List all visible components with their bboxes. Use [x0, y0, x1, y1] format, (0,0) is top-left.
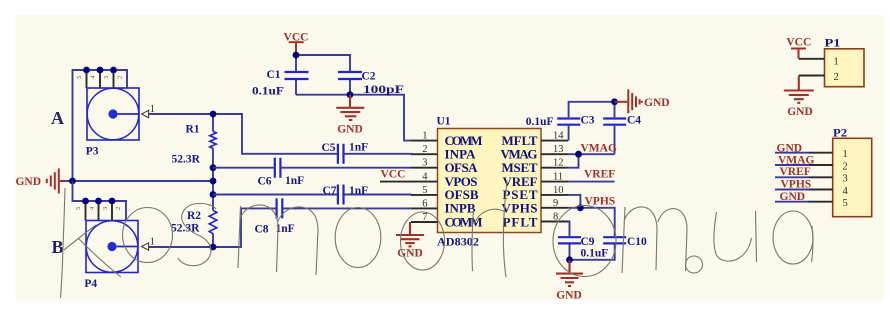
resistor R2 — [209, 210, 217, 234]
U1 right pin stubs 14-8 — [541, 141, 568, 222]
svg-text:3: 3 — [102, 207, 109, 210]
svg-text:5: 5 — [843, 198, 848, 209]
svg-text:2: 2 — [843, 161, 848, 172]
svg-text:P4: P4 — [84, 278, 97, 290]
svg-text:VCC: VCC — [381, 169, 406, 181]
watermark period — [686, 256, 703, 273]
watermark letter a — [773, 211, 813, 264]
svg-text:1: 1 — [422, 131, 427, 142]
junction VCC — [293, 52, 300, 59]
svg-text:A: A — [51, 108, 64, 128]
capacitor C4 — [603, 119, 626, 125]
svg-text:5: 5 — [422, 185, 427, 196]
junction VMAG — [575, 151, 582, 158]
svg-text:1nF: 1nF — [349, 185, 368, 197]
watermark letter o2 — [335, 208, 381, 268]
U1 left pin names — [445, 133, 483, 229]
capacitor C3 — [557, 119, 580, 125]
svg-text:R2: R2 — [187, 210, 201, 222]
watermark letter u — [714, 211, 757, 262]
wire: C6 to U1 pin3 — [281, 167, 411, 169]
watermark letter d ascender — [503, 181, 507, 277]
svg-text:GND: GND — [15, 176, 41, 188]
svg-text:C6: C6 — [258, 175, 272, 187]
watermark letter s — [178, 203, 216, 265]
svg-text:P2: P2 — [833, 128, 847, 140]
wire: R2 top row to C7 — [213, 194, 337, 196]
svg-text:1: 1 — [150, 237, 155, 248]
svg-text:COMM: COMM — [445, 214, 483, 229]
svg-text:R1: R1 — [186, 124, 200, 136]
wire: P3 ground rail — [73, 70, 128, 181]
wire: VMAG net pin13 to C4 and MSET — [568, 154, 615, 168]
wire: input A net from P3 pin1 to C5 — [149, 114, 337, 154]
wire: R1 bottom to C6 — [213, 167, 274, 169]
svg-text:VMAG: VMAG — [778, 154, 814, 166]
wire: P2 net stub VPHS — [775, 189, 809, 191]
connector P4 body — [86, 221, 138, 273]
junction R2 top row — [210, 191, 217, 198]
wire: P2 net stub GND2 — [775, 201, 809, 203]
svg-text:C7: C7 — [323, 185, 337, 197]
junction ground row — [210, 178, 217, 185]
junction C2 bottom — [347, 91, 354, 98]
svg-text:5: 5 — [75, 207, 82, 210]
watermark letter m — [238, 205, 318, 275]
wire: input B net from P4 pin1 to C8 — [149, 208, 276, 247]
wire: ground to R1/R2 midpoint — [67, 180, 214, 182]
P4 pin1 arrow — [142, 243, 149, 250]
wire: MFLT filter C3 C4 rail — [569, 102, 615, 154]
capacitor C2 — [338, 72, 362, 79]
ground under C9 — [556, 260, 583, 286]
svg-text:VPHS: VPHS — [781, 179, 812, 191]
svg-text:8: 8 — [553, 212, 558, 223]
svg-text:PFLT: PFLT — [503, 214, 538, 229]
connector P2 — [833, 138, 872, 216]
svg-text:13: 13 — [553, 144, 564, 155]
connector P3 pin stubs — [87, 70, 114, 88]
svg-text:0.1uF: 0.1uF — [252, 86, 284, 98]
junction C4 top — [611, 98, 618, 105]
U1 left pin numbers — [422, 131, 428, 223]
P2 pin stubs — [808, 153, 832, 202]
connector P3 body — [87, 88, 139, 140]
svg-text:100pF: 100pF — [363, 84, 404, 96]
svg-text:C8: C8 — [255, 224, 269, 236]
svg-text:B: B — [52, 237, 64, 257]
svg-text:5: 5 — [76, 76, 83, 79]
P3 tiny pin numbers — [76, 75, 124, 79]
svg-text:3: 3 — [843, 174, 848, 185]
watermark letter d bowl — [401, 212, 445, 270]
wire: P4 ground rail — [73, 181, 127, 221]
junction R1 top — [210, 111, 217, 118]
svg-text:6: 6 — [422, 198, 427, 209]
ground under U1 pin7 — [396, 222, 424, 246]
svg-text:C3: C3 — [581, 115, 595, 127]
svg-text:C2: C2 — [362, 71, 376, 83]
junction R1 bottom — [210, 164, 217, 171]
svg-text:14: 14 — [553, 131, 564, 142]
op-amp U1 AD8302 body — [438, 129, 542, 233]
svg-text:2: 2 — [115, 207, 122, 210]
svg-text:1: 1 — [150, 104, 155, 115]
wire: P2 net stub VREF — [775, 176, 809, 178]
wire: C7 to U1 pin5 — [345, 194, 412, 196]
capacitor C7 — [338, 185, 344, 205]
svg-text:VMAG: VMAG — [581, 142, 617, 154]
svg-text:11: 11 — [553, 172, 563, 183]
svg-text:2: 2 — [834, 72, 839, 83]
connector P4 pin stubs — [86, 201, 113, 221]
svg-text:10: 10 — [553, 185, 564, 196]
svg-text:P1: P1 — [825, 38, 841, 50]
svg-text:C1: C1 — [267, 69, 281, 81]
svg-text:52.3R: 52.3R — [172, 154, 201, 166]
svg-text:VREF: VREF — [780, 166, 811, 178]
svg-text:9: 9 — [553, 198, 558, 209]
P1 pin stubs — [799, 59, 825, 76]
svg-text:1nF: 1nF — [285, 175, 304, 187]
junction VPHS — [577, 204, 584, 211]
svg-text:GND: GND — [787, 106, 813, 118]
ground right of C4 (rotated) — [615, 89, 642, 113]
capacitor C1 — [285, 72, 309, 79]
ground under C2 — [336, 95, 364, 120]
capacitor C6 — [275, 158, 281, 178]
svg-text:0.1uF: 0.1uF — [581, 248, 609, 260]
junction dots P3 rail — [83, 67, 90, 74]
svg-text:C5: C5 — [322, 142, 336, 154]
P2 pin numbers — [843, 149, 849, 209]
svg-text:OFSA: OFSA — [445, 160, 479, 175]
wire: decoupling cluster C1 C2 — [296, 55, 412, 141]
capacitor C10 — [603, 237, 626, 243]
svg-text:AD8302: AD8302 — [437, 237, 479, 249]
svg-text:C9: C9 — [581, 236, 595, 248]
svg-text:C10: C10 — [627, 236, 647, 248]
wire: C5 to U1 pin2 — [345, 153, 412, 155]
wire: C8 to U1 pin6 — [283, 207, 411, 209]
junction R2 bottom — [210, 244, 217, 251]
svg-text:1: 1 — [843, 149, 848, 160]
svg-text:MSET: MSET — [502, 160, 538, 175]
capacitor C8 — [277, 198, 283, 218]
ground under P1 pin2 — [784, 76, 814, 103]
svg-text:P3: P3 — [86, 146, 99, 158]
svg-text:3: 3 — [103, 76, 110, 79]
connector P1 — [825, 49, 865, 87]
svg-text:7: 7 — [422, 212, 427, 223]
svg-text:GND: GND — [777, 143, 803, 155]
wire: P2 net stub VMAG — [775, 164, 809, 166]
svg-text:U1: U1 — [437, 116, 451, 128]
wire: VPHS net pin9 pin10 — [568, 195, 615, 236]
U1 right pin names — [501, 133, 538, 229]
U1 right pin numbers — [553, 131, 564, 223]
svg-text:GND: GND — [644, 97, 670, 109]
wire: PFLT to C9 C10 — [568, 222, 615, 260]
svg-text:0.1uF: 0.1uF — [526, 116, 554, 128]
svg-text:12: 12 — [553, 158, 564, 169]
P4 tiny pin numbers — [75, 206, 122, 210]
watermark letter r — [472, 209, 505, 271]
svg-text:2: 2 — [117, 76, 124, 79]
watermark letter m2 — [622, 207, 687, 273]
watermark letter o3 — [553, 206, 616, 277]
resistor R1 — [210, 131, 216, 148]
wire: VREF net pin11 — [568, 181, 615, 183]
wire: P2 net stub GND — [775, 152, 809, 154]
svg-text:3: 3 — [422, 158, 427, 169]
P3 pin1 arrow — [142, 110, 149, 117]
junction dots P4 rail — [82, 198, 89, 205]
capacitor C9 — [558, 237, 581, 243]
svg-text:52.3R: 52.3R — [171, 223, 200, 235]
svg-text:4: 4 — [843, 186, 849, 197]
svg-text:GND: GND — [337, 124, 363, 136]
watermark letter o — [123, 208, 173, 263]
junction ground left — [69, 178, 76, 185]
svg-text:GND: GND — [780, 191, 806, 203]
wire: R column — [212, 114, 214, 247]
wire: VCC to U1 pin4 — [380, 181, 412, 183]
svg-text:2: 2 — [422, 144, 427, 155]
svg-text:4: 4 — [422, 172, 428, 183]
svg-text:GND: GND — [556, 290, 582, 302]
junction C9 bottom — [566, 256, 573, 263]
svg-text:C4: C4 — [627, 115, 641, 127]
svg-text:1nF: 1nF — [349, 142, 368, 154]
capacitor C5 — [338, 144, 344, 164]
watermark letter k — [61, 188, 122, 298]
svg-text:VCC: VCC — [786, 37, 811, 49]
svg-text:1: 1 — [834, 57, 839, 68]
U1 left pin stubs 1-7 — [411, 141, 438, 222]
svg-text:VREF: VREF — [584, 168, 615, 180]
